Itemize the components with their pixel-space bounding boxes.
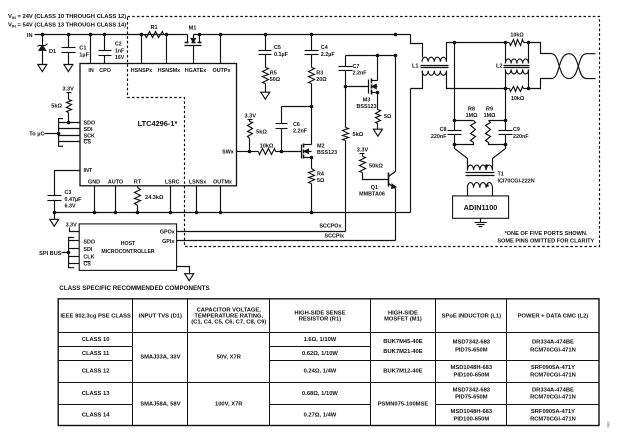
- svg-text:3.3V: 3.3V: [62, 87, 74, 93]
- svg-text:ICI70CGI-222N: ICI70CGI-222N: [498, 178, 535, 184]
- wire IN pin: [90, 35, 92, 64]
- svg-text:083: 083: [607, 422, 611, 428]
- op-amp U2 host microcontroller box: [79, 224, 176, 271]
- wire LSRC pin to rail: [170, 186, 172, 213]
- wire HGATEx gate: [193, 46, 195, 64]
- svg-text:PSMN075-100MSE: PSMN075-100MSE: [378, 401, 429, 407]
- svg-text:C3: C3: [65, 190, 72, 196]
- svg-text:INT: INT: [84, 168, 93, 174]
- svg-text:0.62Ω, 1/10W: 0.62Ω, 1/10W: [302, 351, 338, 357]
- ground for host: [185, 274, 194, 281]
- svg-text:CLK: CLK: [83, 254, 94, 260]
- svg-text:C6: C6: [293, 122, 300, 128]
- svg-text:CPO: CPO: [99, 68, 111, 74]
- svg-text:CLASS 13: CLASS 13: [82, 391, 110, 397]
- svg-text:220nF: 220nF: [431, 134, 447, 140]
- svg-text:MSD7342-683: MSD7342-683: [453, 387, 491, 393]
- svg-text:SMAJ33A, 33V: SMAJ33A, 33V: [140, 355, 180, 361]
- svg-text:C7: C7: [353, 64, 360, 70]
- resistor 5R M3 source: [377, 93, 379, 110]
- svg-text:D1: D1: [49, 49, 56, 55]
- resistor R3: [309, 68, 315, 84]
- svg-text:1MΩ: 1MΩ: [466, 113, 478, 119]
- capacitor C8: [448, 130, 462, 132]
- wire AUTO pin to rail: [115, 186, 117, 213]
- capacitor C2: [104, 35, 106, 51]
- transformer T1: [455, 145, 468, 166]
- svg-text:50V, X7R: 50V, X7R: [217, 355, 242, 361]
- svg-text:CLASS SPECIFIC RECOMMENDED COM: CLASS SPECIFIC RECOMMENDED COMPONENTS: [59, 285, 209, 292]
- svg-text:5Ω: 5Ω: [317, 178, 325, 184]
- svg-text:1MΩ: 1MΩ: [484, 113, 496, 119]
- wire host SPI bracket: [69, 238, 75, 268]
- svg-text:CLASS 12: CLASS 12: [82, 369, 110, 375]
- capacitor C5: [265, 35, 267, 51]
- svg-text:0.24Ω, 1/4W: 0.24Ω, 1/4W: [304, 369, 337, 375]
- transistor M2 BSS123: [301, 145, 303, 159]
- svg-text:Q1: Q1: [371, 185, 378, 191]
- svg-text:C1: C1: [79, 45, 86, 51]
- table class specific components: [58, 299, 599, 426]
- wire OUTPx pin: [220, 35, 222, 64]
- svg-text:MSD1048H-683: MSD1048H-683: [451, 409, 493, 415]
- node SPI BUS junction: [67, 251, 71, 255]
- svg-text:0.47µF: 0.47µF: [65, 197, 83, 203]
- svg-text:(C1, C4, C5, C6, C7, C8, C9): (C1, C4, C5, C6, C7, C8, C9): [191, 320, 266, 326]
- svg-text:SOME PINS OMITTED FOR CLARITY: SOME PINS OMITTED FOR CLARITY: [497, 239, 594, 245]
- svg-text:PID75-650M: PID75-650M: [455, 348, 488, 354]
- resistor 10k top termination: [510, 40, 524, 46]
- svg-text:SCCPOx: SCCPOx: [319, 224, 341, 230]
- resistor R8 1M: [455, 120, 474, 122]
- svg-text:IN: IN: [88, 68, 93, 74]
- svg-text:6.3V: 6.3V: [65, 204, 76, 210]
- svg-text:T1: T1: [498, 171, 504, 177]
- wire LSNSx pin to rail: [196, 186, 198, 213]
- svg-text:RCM70CGI-471N: RCM70CGI-471N: [530, 372, 576, 378]
- svg-text:3.3V: 3.3V: [66, 223, 77, 229]
- ground for R5: [261, 92, 270, 99]
- wire IN rail right segment: [194, 34, 411, 36]
- svg-text:50Ω: 50Ω: [270, 77, 281, 83]
- svg-text:MSD1048H-683: MSD1048H-683: [451, 365, 493, 371]
- svg-text:LSRC: LSRC: [165, 180, 180, 186]
- svg-text:BSS123: BSS123: [356, 104, 376, 110]
- wire IN rail left segment: [35, 34, 188, 36]
- resistor R4: [311, 158, 313, 169]
- svg-text:L2: L2: [496, 64, 503, 70]
- wire host ground: [177, 267, 190, 274]
- node SDO pullup junction: [67, 121, 71, 125]
- svg-text:BUK7M12-40E: BUK7M12-40E: [383, 369, 422, 375]
- node M3 gate node: [344, 85, 348, 89]
- svg-text:HOST: HOST: [121, 241, 136, 247]
- svg-text:20Ω: 20Ω: [316, 77, 327, 83]
- wire rail jog to L1: [411, 35, 423, 58]
- svg-text:10kΩ: 10kΩ: [510, 33, 524, 39]
- svg-text:MICROCONTROLLER: MICROCONTROLLER: [101, 249, 155, 255]
- node M2 drain node: [310, 105, 314, 109]
- svg-text:CLASS 14: CLASS 14: [82, 413, 110, 419]
- svg-text:C8: C8: [440, 127, 447, 133]
- transistor Q1 MMBTA06: [388, 173, 390, 187]
- svg-text:R5: R5: [270, 70, 277, 76]
- svg-text:R4: R4: [317, 171, 324, 177]
- svg-text:220nF: 220nF: [513, 134, 529, 140]
- svg-text:5kΩ: 5kΩ: [256, 129, 267, 135]
- svg-text:3.3V: 3.3V: [244, 114, 256, 120]
- svg-text:DR334A-474BE: DR334A-474BE: [532, 340, 574, 346]
- svg-text:VIN = 24V (CLASS 10 THROUGH CL: VIN = 24V (CLASS 10 THROUGH CLASS 12): [8, 14, 126, 20]
- svg-text:SCK: SCK: [84, 133, 95, 139]
- wire C8 tap: [454, 43, 456, 131]
- svg-text:OUTPx: OUTPx: [213, 68, 231, 74]
- svg-text:CS: CS: [83, 262, 91, 268]
- svg-text:R1: R1: [151, 25, 158, 31]
- node gate node: [280, 150, 284, 154]
- resistor 5k pullup SDO: [67, 100, 72, 113]
- capacitor C4: [311, 35, 313, 51]
- svg-text:INPUT TVS (D1): INPUT TVS (D1): [139, 314, 182, 320]
- capacitor C1: [68, 35, 70, 48]
- svg-text:IEEE 802.3cg PSE CLASS: IEEE 802.3cg PSE CLASS: [60, 314, 131, 320]
- svg-text:M2: M2: [317, 143, 325, 149]
- svg-text:3.3V: 3.3V: [357, 148, 369, 154]
- wire HSNSPx pin: [141, 35, 143, 64]
- svg-text:SMAJ58A, 58V: SMAJ58A, 58V: [140, 401, 180, 407]
- svg-text:VIN = 54V (CLASS 13 THROUGH CL: VIN = 54V (CLASS 13 THROUGH CLASS 14): [8, 23, 126, 29]
- svg-text:M3: M3: [363, 98, 371, 104]
- resistor 10k bottom termination: [510, 87, 524, 92]
- svg-text:R3: R3: [316, 70, 323, 76]
- svg-text:0.27Ω, 1/4W: 0.27Ω, 1/4W: [304, 413, 337, 419]
- capacitor C3: [48, 195, 62, 197]
- op-amp U3 ADIN1100 PHY box: [453, 196, 509, 218]
- svg-text:RCM70CGI-471N: RCM70CGI-471N: [530, 395, 576, 401]
- svg-text:0.1µF: 0.1µF: [274, 52, 289, 58]
- op-amp U1 main IC LTC4296-1 box: [80, 64, 237, 186]
- svg-text:HSNSMx: HSNSMx: [158, 68, 180, 74]
- svg-text:BUK7M21-40E: BUK7M21-40E: [383, 349, 422, 355]
- svg-text:L1: L1: [412, 64, 419, 70]
- svg-text:CLASS 11: CLASS 11: [82, 351, 110, 357]
- ground for D1: [38, 65, 47, 72]
- svg-text:10kΩ: 10kΩ: [260, 143, 274, 149]
- svg-text:MMBTA06: MMBTA06: [359, 192, 385, 198]
- svg-text:50kΩ: 50kΩ: [369, 163, 383, 169]
- svg-text:ADIN1100: ADIN1100: [464, 203, 498, 212]
- svg-text:2.2nF: 2.2nF: [353, 70, 368, 76]
- svg-text:DR334A-474BE: DR334A-474BE: [532, 387, 574, 393]
- ground for C1: [64, 65, 73, 72]
- svg-text:10kΩ: 10kΩ: [511, 96, 525, 102]
- resistor RT 24.3k: [137, 186, 139, 188]
- svg-text:C4: C4: [321, 45, 328, 51]
- svg-text:MOSFET (M1): MOSFET (M1): [384, 317, 422, 323]
- wire L1 bottom left: [411, 71, 423, 89]
- resistor 50k: [360, 157, 366, 173]
- wire L1 top right: [447, 43, 506, 62]
- wire OUTMx pin to rail: [220, 186, 222, 213]
- svg-text:5Ω: 5Ω: [384, 114, 392, 120]
- ground below C3 node: [54, 213, 56, 220]
- wire twisted pair leads: [529, 43, 552, 54]
- svg-text:CS: CS: [84, 140, 92, 146]
- wire GND pin to rail: [94, 186, 96, 213]
- resistor 10k gate: [250, 151, 259, 153]
- svg-text:5kΩ: 5kΩ: [51, 103, 62, 109]
- resistor 5k SWx pullup: [248, 122, 253, 139]
- svg-text:HSNSPx: HSNSPx: [131, 68, 153, 74]
- wire Q1 base: [363, 173, 389, 180]
- capacitor C7: [345, 56, 347, 67]
- svg-text:M1: M1: [189, 26, 197, 32]
- svg-text:RT: RT: [134, 180, 142, 186]
- svg-text:CLASS 10: CLASS 10: [82, 337, 110, 343]
- wire L2 right verticals: [528, 43, 530, 64]
- svg-text:SDO: SDO: [84, 121, 96, 127]
- resistor R1: [145, 32, 164, 38]
- wire C9 tap: [505, 89, 507, 131]
- svg-text:1nF: 1nF: [115, 48, 124, 54]
- transistor M3 BSS123: [368, 80, 370, 94]
- svg-text:2.2µF: 2.2µF: [321, 52, 336, 58]
- svg-text:BUK7M45-40E: BUK7M45-40E: [383, 339, 422, 345]
- svg-text:SDI: SDI: [84, 127, 93, 133]
- svg-text:RCM70CGI-471N: RCM70CGI-471N: [530, 416, 576, 422]
- svg-text:OUTMx: OUTMx: [213, 180, 232, 186]
- svg-text:*ONE OF FIVE PORTS SHOWN.: *ONE OF FIVE PORTS SHOWN.: [505, 231, 588, 237]
- svg-text:1µF: 1µF: [79, 52, 89, 58]
- svg-text:PID100-650M: PID100-650M: [453, 372, 489, 378]
- svg-text:GPIx: GPIx: [162, 239, 174, 245]
- wire return rail riser to L1: [410, 89, 412, 213]
- node rail junction dots: [41, 33, 45, 37]
- svg-text:C9: C9: [513, 127, 520, 133]
- wire L2 left verticals: [505, 43, 507, 64]
- resistor R9 1M: [489, 120, 506, 122]
- ground earth for ADIN1100: [480, 219, 482, 223]
- svg-text:1.6Ω, 1/10W: 1.6Ω, 1/10W: [304, 337, 337, 343]
- wire SPI bus bracket to uC: [59, 119, 63, 147]
- ground for M3 source resistor: [373, 129, 382, 136]
- svg-text:SRF0905A-471Y: SRF0905A-471Y: [531, 365, 575, 371]
- svg-text:POWER + DATA CMC (L2): POWER + DATA CMC (L2): [518, 314, 589, 320]
- dashed port boundary: [128, 17, 600, 247]
- capacitor C6: [282, 106, 312, 108]
- svg-text:SRF0905A-471Y: SRF0905A-471Y: [531, 409, 575, 415]
- svg-text:PID100-650M: PID100-650M: [453, 416, 489, 422]
- svg-text:SPI BUS: SPI BUS: [39, 251, 62, 257]
- svg-text:16V: 16V: [115, 55, 125, 61]
- wire SWx stub: [237, 151, 250, 153]
- svg-text:MSD7342-683: MSD7342-683: [453, 340, 491, 346]
- wire return rail: [55, 212, 411, 214]
- wire twisted pair: [552, 54, 596, 79]
- wire SCCPIx: [177, 240, 396, 242]
- svg-text:LTC4296-1*: LTC4296-1*: [138, 119, 178, 128]
- svg-text:5kΩ: 5kΩ: [353, 132, 364, 138]
- wire HSNSMx pin: [166, 35, 168, 64]
- svg-text:C2: C2: [115, 42, 122, 48]
- svg-text:SPoE INDUCTOR (L1): SPoE INDUCTOR (L1): [442, 314, 502, 320]
- node pair taps: [453, 41, 457, 45]
- wire INT to C3: [55, 171, 81, 196]
- svg-text:HGATEx: HGATEx: [185, 68, 206, 74]
- svg-text:RESISTOR (R1): RESISTOR (R1): [299, 317, 341, 323]
- capacitor C9: [499, 130, 513, 132]
- diode D1 TVS: [42, 35, 44, 45]
- svg-text:SDO: SDO: [83, 240, 95, 246]
- svg-text:GND: GND: [88, 180, 100, 186]
- svg-text:To µC: To µC: [29, 132, 44, 138]
- wire SCCPOx: [177, 231, 346, 233]
- svg-text:SCCPIx: SCCPIx: [325, 234, 344, 240]
- node To uC junction: [57, 132, 61, 136]
- svg-text:C5: C5: [274, 45, 281, 51]
- svg-text:100V, X7R: 100V, X7R: [215, 401, 243, 407]
- svg-text:R9: R9: [486, 107, 493, 113]
- svg-text:24.3kΩ: 24.3kΩ: [145, 195, 164, 201]
- svg-text:SDI: SDI: [83, 247, 92, 253]
- svg-text:BSS123: BSS123: [317, 150, 337, 156]
- svg-text:GPOx: GPOx: [160, 230, 175, 236]
- node return rail dots: [53, 211, 57, 215]
- svg-text:RCM70CGI-471N: RCM70CGI-471N: [530, 348, 576, 354]
- svg-text:AUTO: AUTO: [108, 180, 123, 186]
- resistor R5: [263, 68, 269, 84]
- resistor 5k SCCP: [345, 87, 347, 128]
- wire C7 branch top: [346, 55, 396, 57]
- svg-text:LSNSx: LSNSx: [189, 180, 206, 186]
- svg-text:PID75-650M: PID75-650M: [455, 395, 488, 401]
- wire L1 bottom right: [447, 71, 506, 89]
- svg-text:R8: R8: [468, 107, 475, 113]
- svg-text:2.2nF: 2.2nF: [293, 129, 308, 135]
- svg-text:SWx: SWx: [222, 149, 234, 155]
- svg-text:IN: IN: [27, 33, 33, 39]
- wire Q1 emitter to SCCPIx: [395, 189, 397, 241]
- svg-text:0.68Ω, 1/10W: 0.68Ω, 1/10W: [302, 391, 338, 397]
